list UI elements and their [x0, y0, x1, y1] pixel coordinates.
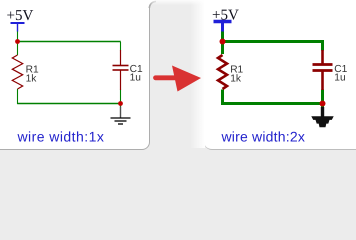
svg-text:+5V: +5V [7, 8, 34, 24]
svg-text:wire width:2x: wire width:2x [221, 129, 306, 145]
svg-text:+5V: +5V [212, 8, 239, 24]
svg-text:1u: 1u [130, 73, 141, 84]
svg-text:1k: 1k [26, 73, 38, 84]
svg-text:1k: 1k [230, 73, 242, 84]
svg-text:wire width:1x: wire width:1x [17, 129, 105, 145]
svg-text:1u: 1u [334, 73, 345, 84]
